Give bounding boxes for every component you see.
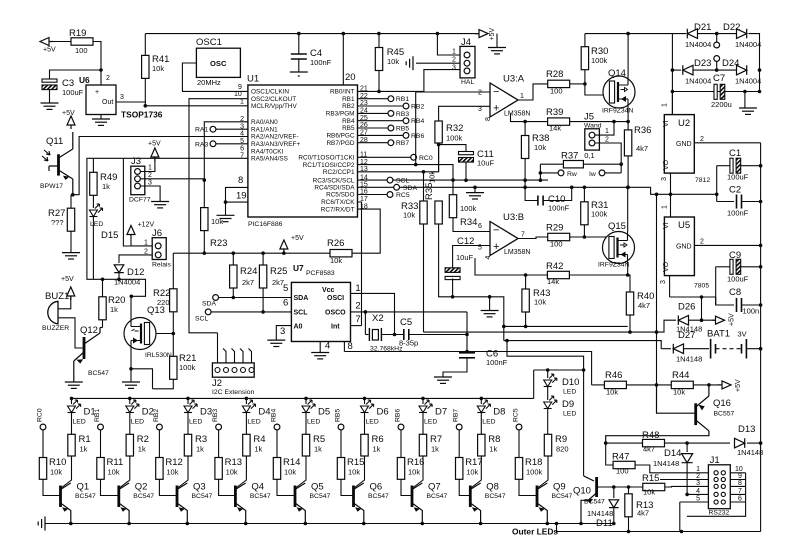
wire R32 bottom bbox=[438, 143, 440, 172]
wire R39 to Q14 source bbox=[570, 121, 629, 123]
diode D12 bbox=[114, 265, 124, 273]
resistor R23 bbox=[201, 208, 208, 231]
svg-text:IRL530N: IRL530N bbox=[145, 352, 172, 359]
transistor Q7 BC547 bbox=[411, 486, 414, 508]
svg-text:R24: R24 bbox=[240, 266, 257, 277]
resistor R36 bbox=[624, 130, 631, 156]
svg-text:RA5/AN4/SS: RA5/AN4/SS bbox=[251, 156, 288, 163]
wire R15 to J1 pin3 bbox=[665, 485, 694, 488]
svg-text:D27: D27 bbox=[678, 330, 695, 341]
wire row U to R46 bbox=[344, 352, 591, 385]
IR receiver U6 box bbox=[86, 85, 116, 115]
junction Q1 emitter bbox=[69, 522, 73, 526]
resistor R44 bbox=[671, 381, 693, 388]
svg-text:2: 2 bbox=[696, 473, 700, 480]
wire top rail right bbox=[585, 33, 686, 35]
junction analog ground tap bbox=[488, 295, 492, 299]
svg-text:Q3: Q3 bbox=[193, 482, 206, 493]
svg-text:RA4/T0CKI: RA4/T0CKI bbox=[251, 148, 284, 155]
wire D26 col bbox=[701, 297, 703, 320]
wire RB3 bbox=[358, 112, 389, 114]
transistor Q11 BPW17 bbox=[57, 154, 60, 175]
svg-text:D5: D5 bbox=[318, 407, 330, 418]
wire Q14 drain bbox=[627, 34, 629, 76]
wire C4 bottom bbox=[298, 59, 300, 72]
svg-text:C7: C7 bbox=[713, 73, 725, 84]
svg-text:100k: 100k bbox=[460, 204, 477, 213]
wire RC5 to R18 bbox=[518, 430, 520, 458]
ground R27 bbox=[62, 253, 80, 259]
svg-text:R7: R7 bbox=[430, 434, 442, 445]
transistor Q10 BC547 bbox=[595, 477, 598, 497]
terminal Iw bbox=[599, 170, 605, 176]
junction Q15 drain row bbox=[626, 273, 630, 277]
terminal RB7 bbox=[456, 424, 462, 430]
svg-text:LED: LED bbox=[247, 419, 260, 426]
svg-text:X2: X2 bbox=[372, 313, 384, 324]
resistor R49 bbox=[90, 172, 97, 195]
wire R38 bottom bbox=[524, 159, 526, 188]
terminal J3 pin1 bbox=[135, 169, 141, 175]
terminal RB2 bbox=[157, 424, 163, 430]
wire Rw col bbox=[539, 164, 541, 180]
wire RB gnd stub bbox=[474, 187, 476, 192]
LED D2 bbox=[126, 400, 139, 413]
svg-text:C2: C2 bbox=[729, 185, 741, 196]
wire D15 loop right column bbox=[123, 158, 131, 246]
wire pin17 column to Int bbox=[358, 202, 362, 326]
terminal RB1 bbox=[388, 96, 394, 102]
resistor R17 bbox=[456, 458, 463, 480]
transistor Q6 BC547 bbox=[352, 486, 355, 508]
svg-text:C12: C12 bbox=[457, 236, 474, 247]
svg-text:R12: R12 bbox=[165, 457, 182, 468]
svg-text:2: 2 bbox=[148, 172, 152, 179]
wire RB3 to R13 bbox=[218, 430, 220, 458]
svg-text:R39: R39 bbox=[546, 107, 563, 118]
wire C2 right bbox=[742, 201, 761, 203]
junction Q2 emitter bbox=[127, 522, 131, 526]
wire RC2 row to R32col bbox=[358, 127, 439, 172]
wire R49 to D15 bbox=[92, 195, 94, 208]
diode D11 bbox=[609, 500, 619, 508]
svg-text:PCF8583: PCF8583 bbox=[306, 270, 335, 277]
terminal J5 pin2 bbox=[589, 140, 595, 146]
wire R33 bottom bbox=[423, 224, 425, 332]
wire bridge right rail bbox=[749, 34, 760, 92]
capacitor C11 bbox=[459, 152, 474, 163]
svg-text:100: 100 bbox=[550, 240, 563, 249]
buzzer BUZ1 bbox=[48, 301, 58, 324]
wire OSCO to X2 bbox=[364, 312, 366, 335]
terminal J1 pin2 bbox=[714, 477, 718, 481]
wire U3B out bbox=[518, 237, 548, 239]
wire D10-D9 bbox=[547, 387, 549, 400]
svg-text:1N4004: 1N4004 bbox=[735, 77, 761, 86]
wire BAT1 right bbox=[746, 348, 760, 350]
resistor R33 bbox=[420, 201, 427, 224]
svg-text:Q4: Q4 bbox=[251, 482, 264, 493]
svg-text:R37: R37 bbox=[561, 151, 578, 162]
svg-text:D26: D26 bbox=[678, 302, 695, 313]
svg-text:U3:B: U3:B bbox=[503, 212, 524, 223]
wire RB1 bbox=[358, 98, 389, 100]
junction C-col/rail bbox=[715, 193, 719, 197]
svg-text:100k: 100k bbox=[179, 363, 196, 372]
svg-text:R9: R9 bbox=[555, 434, 567, 445]
terminal J6 pin1 bbox=[155, 243, 161, 249]
wire R30 to Q14 gate bbox=[585, 70, 603, 95]
junction R32/C11 bbox=[437, 143, 441, 147]
wire AC1 stub bbox=[716, 34, 718, 42]
wire distribution column bbox=[656, 194, 658, 385]
svg-text:+5V: +5V bbox=[291, 235, 304, 242]
wire C9 right bbox=[741, 266, 761, 268]
wire D11 bottom bbox=[613, 509, 615, 524]
svg-text:Q12: Q12 bbox=[80, 325, 98, 336]
svg-text:R15: R15 bbox=[347, 457, 364, 468]
svg-text:100: 100 bbox=[616, 467, 629, 476]
resistor R18 bbox=[515, 458, 522, 480]
resistor R5 bbox=[302, 434, 309, 456]
svg-text:GND: GND bbox=[676, 244, 692, 251]
svg-text:RA2/AN2/VREF-: RA2/AN2/VREF- bbox=[251, 134, 299, 141]
junction D10 chain bbox=[546, 368, 550, 372]
wire J4 pin1 bbox=[437, 34, 460, 55]
svg-text:Wand: Wand bbox=[584, 123, 602, 130]
transistor Q3 BC547 bbox=[176, 486, 179, 508]
svg-text:2: 2 bbox=[700, 136, 704, 143]
svg-text:RB3: RB3 bbox=[396, 111, 409, 118]
wire RC1 row to R34 bbox=[358, 165, 454, 195]
+5V supply arrow rail2 bbox=[280, 240, 288, 253]
svg-text:Rw: Rw bbox=[567, 171, 577, 178]
resistor R2 bbox=[126, 434, 133, 456]
junction right rail bbox=[759, 200, 763, 204]
svg-text:D15: D15 bbox=[101, 230, 118, 241]
wire U3A out to R28 bbox=[518, 84, 548, 100]
ground J3 bbox=[151, 202, 169, 208]
ground U7 A0 bbox=[267, 340, 285, 346]
svg-text:D9: D9 bbox=[562, 399, 574, 410]
svg-text:2: 2 bbox=[106, 75, 110, 82]
svg-text:4k7: 4k7 bbox=[637, 509, 649, 518]
svg-text:R5: R5 bbox=[313, 434, 325, 445]
resistor R43 bbox=[522, 289, 529, 312]
svg-text:D7: D7 bbox=[435, 407, 447, 418]
ground J4 pin2 bbox=[406, 56, 413, 70]
wire C9/C8 col bbox=[715, 267, 717, 305]
junction R47 col bbox=[604, 441, 608, 445]
wire row T to D27 bbox=[504, 341, 661, 349]
junction LED bus bbox=[421, 397, 425, 401]
terminal J1 pin1 bbox=[714, 471, 718, 475]
svg-text:+5V: +5V bbox=[729, 313, 736, 326]
wire RA3 bbox=[216, 143, 248, 145]
svg-text:3: 3 bbox=[661, 177, 668, 181]
svg-text:1: 1 bbox=[144, 240, 148, 247]
svg-text:J4: J4 bbox=[461, 37, 471, 48]
svg-text:BC547: BC547 bbox=[250, 493, 271, 500]
resistor R10 bbox=[39, 458, 46, 480]
svg-text:100k: 100k bbox=[591, 56, 608, 65]
terminal J1 pin10 bbox=[721, 471, 725, 475]
junction LED bus bbox=[363, 397, 367, 401]
svg-text:HAL: HAL bbox=[461, 79, 474, 86]
resistor R47 bbox=[613, 461, 635, 468]
wire analog ground stub bbox=[489, 297, 491, 311]
junction Q7 emitter bbox=[421, 522, 425, 526]
svg-text:D13: D13 bbox=[738, 424, 755, 435]
junction Q14 drain bbox=[626, 32, 630, 36]
svg-text:+5V: +5V bbox=[489, 28, 496, 41]
svg-text:J2: J2 bbox=[212, 378, 222, 389]
junction right rail bbox=[759, 347, 763, 351]
svg-text:R34: R34 bbox=[460, 217, 477, 228]
wire U3B to R42 row bbox=[475, 258, 547, 275]
wire J2 pin4 stub hook bbox=[240, 349, 243, 363]
junction C12 bbox=[451, 295, 455, 299]
svg-text:R17: R17 bbox=[465, 457, 482, 468]
terminal RA1 bbox=[210, 126, 216, 132]
junction C4 bbox=[297, 32, 301, 36]
connector J4 box bbox=[460, 46, 475, 78]
wire U6 gnd bbox=[100, 115, 102, 120]
junction R37/J5pin2 bbox=[619, 162, 623, 166]
wire U2 VI bbox=[671, 92, 673, 115]
svg-text:RB5: RB5 bbox=[342, 125, 355, 132]
junction bridge row3 bbox=[671, 90, 675, 94]
wire Q13 source bbox=[130, 350, 132, 383]
wire X2 left bbox=[365, 334, 368, 336]
terminal J3 pin2 bbox=[135, 176, 141, 182]
svg-text:RB5: RB5 bbox=[335, 409, 342, 422]
svg-text:RC0: RC0 bbox=[37, 408, 44, 422]
ground U6 bbox=[92, 119, 110, 125]
LED D4 bbox=[242, 400, 255, 413]
wire D6 top bbox=[364, 398, 366, 404]
svg-text:1: 1 bbox=[696, 466, 700, 473]
svg-text:U3:A: U3:A bbox=[503, 74, 525, 85]
svg-text:10k: 10k bbox=[428, 171, 437, 183]
svg-text:10: 10 bbox=[735, 466, 743, 473]
wire R41 top bbox=[144, 34, 146, 56]
svg-text:RA3/AN3/VREF+: RA3/AN3/VREF+ bbox=[251, 141, 300, 148]
svg-text:100uF: 100uF bbox=[727, 275, 749, 284]
terminal J3 pin3 bbox=[135, 183, 141, 189]
wire D21-D22 bbox=[698, 33, 738, 35]
wire row V to Q10 bbox=[507, 341, 584, 476]
wire R43 top stub bbox=[525, 275, 527, 289]
wire C10 left bbox=[525, 187, 538, 200]
junction R40/rowS bbox=[628, 330, 632, 334]
svg-text:6: 6 bbox=[738, 496, 742, 503]
svg-text:RB2: RB2 bbox=[342, 103, 355, 110]
wire J2 pin1 stub bbox=[217, 333, 219, 363]
svg-text:5: 5 bbox=[283, 283, 288, 294]
wire relay low-side loop bbox=[87, 231, 146, 296]
junction rowS/column bbox=[655, 330, 659, 334]
svg-text:C5: C5 bbox=[400, 317, 412, 328]
wire U3A inv input bbox=[416, 92, 490, 165]
svg-text:+5V: +5V bbox=[148, 141, 161, 148]
wire R27 top bbox=[70, 195, 72, 209]
svg-text:IRF9Z34N: IRF9Z34N bbox=[598, 262, 629, 269]
wire U6 pin3 out bbox=[116, 101, 146, 103]
junction Q9 emitter bbox=[546, 522, 550, 526]
terminal J2 pin4 bbox=[241, 368, 246, 373]
wire D4 top bbox=[245, 398, 247, 404]
transistor Q9 BC547 bbox=[536, 486, 539, 508]
svg-text:GND: GND bbox=[676, 141, 692, 148]
wire R49 top bbox=[92, 158, 94, 172]
wire +5V rail left bbox=[173, 252, 330, 254]
resistor R11 bbox=[97, 458, 104, 480]
connector J1 box bbox=[708, 465, 730, 509]
wire rail RA bbox=[393, 179, 548, 181]
svg-text:20MHz: 20MHz bbox=[197, 78, 221, 87]
diode D26 bbox=[678, 315, 688, 325]
wire R42 right bbox=[569, 274, 627, 276]
svg-text:RB2: RB2 bbox=[153, 409, 160, 422]
transistor Q2 BC547 bbox=[117, 486, 120, 508]
wire U3A fb to R39 bbox=[511, 113, 548, 122]
wire SDA row bbox=[219, 297, 292, 299]
svg-text:RA0/AN0: RA0/AN0 bbox=[251, 119, 278, 126]
svg-text:D23: D23 bbox=[694, 58, 711, 69]
svg-text:LM358N: LM358N bbox=[504, 111, 530, 118]
resistor R42 bbox=[547, 271, 569, 278]
resistor R13 bbox=[215, 458, 222, 480]
ground top rail bbox=[488, 48, 506, 54]
junction LED bus bbox=[480, 397, 484, 401]
svg-text:10k: 10k bbox=[330, 256, 342, 265]
resistor R35 bbox=[435, 201, 442, 224]
svg-text:BC547: BC547 bbox=[75, 493, 96, 500]
svg-text:R4: R4 bbox=[253, 434, 265, 445]
wire R2 to Q2 collector bbox=[120, 456, 130, 488]
svg-text:R18: R18 bbox=[525, 457, 542, 468]
svg-text:IRF9Z34N: IRF9Z34N bbox=[602, 108, 633, 115]
junction R44 left bbox=[655, 383, 659, 387]
wire R15 to Q6 base bbox=[341, 479, 354, 495]
svg-text:R1: R1 bbox=[79, 434, 91, 445]
svg-text:R25: R25 bbox=[270, 266, 287, 277]
wire R30 top bbox=[584, 34, 586, 47]
junction gate R21/R22 bbox=[172, 332, 176, 336]
wire R36 bottom to rail bbox=[627, 156, 629, 187]
svg-text:7805: 7805 bbox=[694, 283, 709, 290]
svg-text:1k: 1k bbox=[102, 182, 110, 191]
regulator U2 box bbox=[664, 115, 694, 174]
wire Rw stub bbox=[540, 172, 558, 174]
svg-text:VI: VI bbox=[663, 222, 670, 229]
J1 left pin wires bbox=[680, 473, 709, 502]
svg-text:OSC: OSC bbox=[210, 59, 227, 68]
svg-text:8: 8 bbox=[485, 117, 492, 121]
svg-text:Outer LEDs: Outer LEDs bbox=[512, 527, 558, 537]
junction R43 top bbox=[524, 273, 528, 277]
capacitor C12 bbox=[445, 268, 460, 280]
wire R8 to Q8 collector bbox=[472, 456, 482, 488]
wire SCL pin14 bbox=[358, 179, 388, 181]
svg-text:D24: D24 bbox=[722, 58, 739, 69]
ground LED bus bbox=[38, 517, 45, 531]
junction Rw bbox=[539, 171, 543, 175]
junction pin20 bbox=[342, 32, 346, 36]
junction Q15/RB bbox=[626, 186, 630, 190]
svg-text:8-35p: 8-35p bbox=[399, 339, 418, 348]
svg-text:D21: D21 bbox=[694, 22, 711, 33]
wire D14 top bbox=[686, 443, 688, 452]
wire +5V out row bbox=[670, 296, 716, 298]
svg-text:RC5: RC5 bbox=[396, 192, 410, 199]
wire R44 right bbox=[693, 384, 719, 386]
svg-text:10k: 10k bbox=[152, 64, 164, 73]
LED D1 bbox=[68, 400, 81, 413]
wire R24 top bbox=[232, 253, 234, 265]
svg-text:U7: U7 bbox=[293, 263, 304, 273]
terminal J6 pin2 bbox=[155, 252, 161, 258]
svg-text:R19: R19 bbox=[69, 28, 86, 39]
wire R47 to J1 pin1 bbox=[635, 465, 694, 473]
svg-text:10k: 10k bbox=[348, 468, 360, 477]
wire R11 to Q2 base bbox=[101, 479, 119, 495]
svg-text:R3: R3 bbox=[195, 434, 207, 445]
junction Q16 emitter bbox=[707, 383, 711, 387]
svg-text:RC3/SCK/SCL: RC3/SCK/SCL bbox=[313, 177, 355, 184]
wire bridge left rail bbox=[671, 34, 673, 115]
junction right rail bbox=[759, 244, 763, 248]
svg-text:8: 8 bbox=[238, 175, 243, 186]
connector J3 box bbox=[131, 166, 145, 195]
svg-text:R8: R8 bbox=[488, 434, 500, 445]
wire R46 left bbox=[592, 384, 605, 386]
wire R20 top bbox=[102, 279, 104, 297]
svg-text:1k: 1k bbox=[373, 445, 381, 454]
svg-text:2: 2 bbox=[605, 137, 609, 144]
svg-text:SCL: SCL bbox=[396, 178, 409, 185]
svg-text:6: 6 bbox=[478, 223, 482, 230]
terminal RC5 bbox=[516, 424, 522, 430]
resistor R48 bbox=[643, 439, 665, 446]
wire R37 right bbox=[583, 163, 621, 165]
capacitor C10 bbox=[538, 196, 543, 206]
J1 outer wire loop bbox=[680, 473, 746, 532]
svg-text:100k: 100k bbox=[446, 134, 463, 143]
wire U6 pin2 bbox=[100, 70, 102, 85]
wire D10 top bbox=[547, 370, 549, 378]
svg-text:R16: R16 bbox=[407, 457, 424, 468]
wire C1 right bbox=[741, 165, 761, 167]
wire BUZ1 to Q12 base bbox=[58, 318, 83, 348]
wire rail ground stub bbox=[496, 34, 498, 48]
svg-text:4: 4 bbox=[325, 341, 330, 352]
svg-text:???: ??? bbox=[51, 218, 64, 227]
terminal J1 pin3 bbox=[714, 484, 718, 488]
junction R38 top bbox=[523, 120, 527, 124]
wire U3B noninv C12 bbox=[453, 246, 490, 268]
wire U7 OSCO row bbox=[351, 311, 468, 313]
svg-text:1: 1 bbox=[520, 93, 524, 100]
svg-text:19: 19 bbox=[236, 191, 247, 202]
svg-text:10k: 10k bbox=[534, 143, 546, 152]
junction J5 pin1 bbox=[612, 120, 616, 124]
wire R47 left bbox=[606, 443, 613, 465]
diode D24 bbox=[737, 65, 747, 75]
wire OSC2/CLKOUT column to J2 bbox=[189, 99, 248, 333]
terminal Rw bbox=[558, 170, 564, 176]
